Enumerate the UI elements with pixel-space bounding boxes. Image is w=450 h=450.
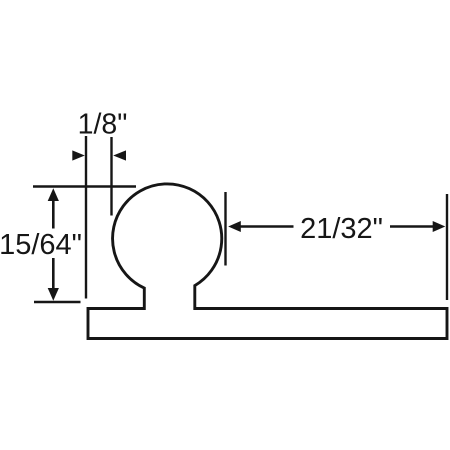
- 21/32 dim line right shaft: [390, 225, 434, 228]
- arrow pointing left at 1/8 right line: [113, 150, 126, 160]
- 21/32 left arrow: [228, 221, 241, 232]
- 15/64 dim line lower shaft: [52, 258, 55, 290]
- svg-text:21/32": 21/32": [300, 213, 383, 245]
- extension line left of 1/8 dim: [85, 136, 87, 299]
- 15/64 up arrow: [48, 188, 59, 201]
- extension line bottom of 15/64 dim: [34, 301, 81, 303]
- extension line right of 1/8 dim: [110, 137, 112, 216]
- extension line left of 21/32 dim: [224, 192, 226, 266]
- 21/32 right arrow: [433, 221, 446, 232]
- svg-text:1/8": 1/8": [78, 109, 128, 141]
- 21/32 dim line left shaft: [240, 225, 294, 228]
- 15/64 down arrow: [48, 288, 59, 301]
- profile outline (bulb + neck + base bar): [88, 184, 447, 339]
- extension line top of 15/64 dim: [33, 185, 136, 187]
- 15/64 dim line upper shaft: [52, 200, 55, 229]
- extension line right of 21/32 dim: [446, 194, 448, 300]
- svg-text:15/64": 15/64": [0, 229, 82, 261]
- arrow pointing right at 1/8 left line: [72, 150, 85, 160]
